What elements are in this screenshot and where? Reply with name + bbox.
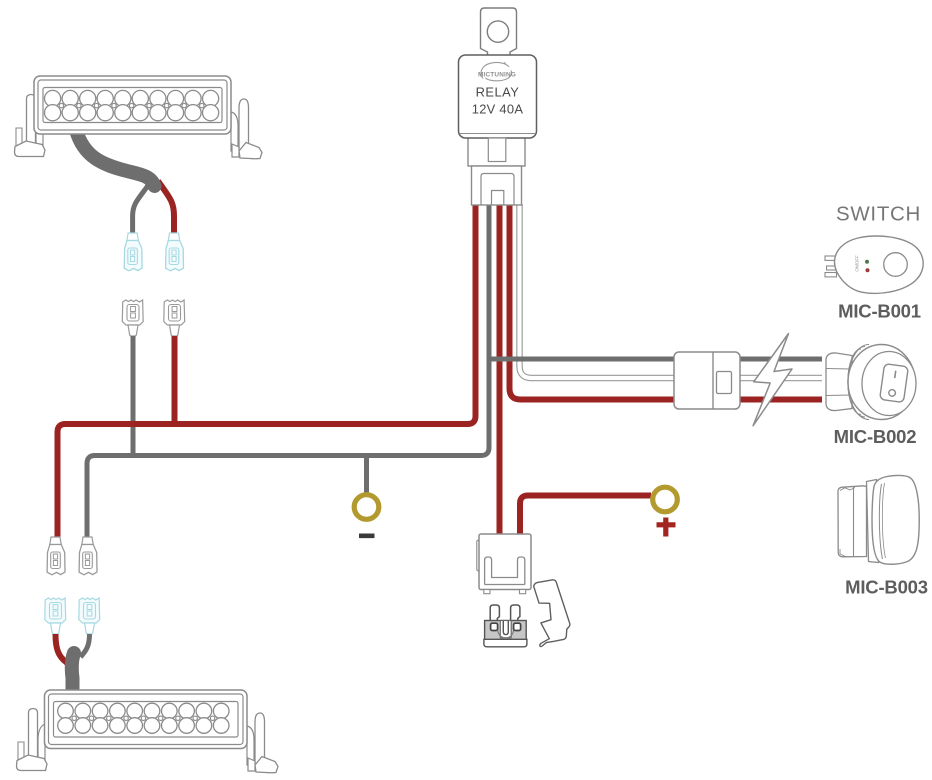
switch MIC-B001 red LED [866,268,870,272]
switch MIC-B003 mounting flange [867,480,879,563]
relay connector lower [472,166,522,205]
LED light bar LB1 left mounting bracket [15,95,46,157]
switch MIC-B002 bezel rings [848,345,869,420]
wire: relay pin 87 red -> power bus to light bars [58,204,476,538]
blade fuse F1 [484,605,527,647]
LED light bar LB2 left mounting bracket [17,709,48,771]
LED light bar LB2 body [45,690,248,749]
wire: gray vertical to ground bus [131,336,136,456]
svg-text:RELAY: RELAY [476,85,520,100]
svg-text:MIC-B002: MIC-B002 [834,426,917,447]
wire: relay white -> switch [520,204,823,378]
LED light bar LB2 right mounting bracket [247,713,278,773]
label: minus sign [359,534,375,539]
switch MIC-B001 button [884,253,908,277]
connector: blue female terminal (LB1 red lead) [166,233,184,271]
connector: male terminal (harness red, top right) [164,300,185,336]
connector: male terminal (harness gray, top left) [122,300,143,336]
relay label RELAY [476,85,520,100]
relay socket inner slot [488,138,506,162]
wire: ground stub to negative ring terminal [364,455,369,496]
label: MIC-B001 [838,301,921,322]
relay label 12V 40A [472,102,524,117]
switch MIC-B003 rear body [838,486,867,557]
label: MIC-B002 [834,426,917,447]
connector: white female terminal (gray feed, bottom right) [79,537,97,575]
switch MIC-B002 front face [862,352,916,416]
wire: top light bar ground lead (gray) [133,181,151,235]
lightning bolt symbol [753,334,792,426]
wire: top light bar power lead (red) [158,181,174,235]
svg-text:SWITCH: SWITCH [836,203,921,226]
wire: red vertical to power bus [172,336,178,424]
switch MIC-B003 rocker face [872,475,919,564]
switch MIC-B001 pins [825,256,837,277]
connector: blue male terminal (LB2 red lead) [45,598,66,634]
wire: LB2 red lead [56,634,74,673]
relay mounting hole [487,21,508,42]
svg-text:MIC-B001: MIC-B001 [838,301,921,322]
switch MIC-B002 rear barrel [826,353,852,411]
ring terminal negative (-) [354,495,379,520]
LED light bar LB1 body [34,76,231,134]
svg-text:ON/OFF: ON/OFF [855,255,860,272]
LED light bar LB1 right mounting bracket [231,99,262,159]
switch MIC-B001 ON/OFF marking [855,255,860,272]
label: MIC-B003 [845,577,928,598]
wire: LB2 gray lead [81,634,90,657]
svg-text:12V 40A: 12V 40A [472,102,524,117]
fuse holder cover [534,580,570,647]
relay socket upper [468,130,525,166]
switch MIC-B002 rocker [880,364,909,403]
svg-text:MICTUNING: MICTUNING [478,72,516,79]
connector: blue male terminal (LB2 gray lead) [79,598,100,634]
relay body U1 [459,55,537,138]
label: SWITCH heading [836,203,921,226]
wire: gray branch to switch (tee at relay gray) [489,357,822,362]
relay mounting tab [481,8,517,56]
relay MICTUNING logo [478,62,516,81]
fuse holder box [477,534,531,590]
ring terminal positive (+) [653,487,678,512]
label: plus sign [657,518,676,537]
fuse holder feet [484,590,526,594]
switch MIC-B002 front rim [848,345,915,420]
connector: blue female terminal (LB1 gray lead) [124,233,142,271]
cable: bottom light bar pigtail [72,653,74,689]
wire: relay pin 30 red -> fuse holder [497,204,503,535]
inline connector block on switch wires [674,352,740,409]
wire: fuse holder -> positive ring terminal (red) [520,496,651,536]
switch MIC-B001 green LED [865,260,869,264]
connector: white female terminal (red feed, bottom left) [47,537,65,575]
svg-text:MIC-B003: MIC-B003 [845,577,928,598]
cable: top light bar pigtail [76,130,155,186]
wire: relay pin 85 gray -> ground bus to light bars [87,204,489,538]
switch MIC-B001 body [834,236,923,293]
wire: relay red -> switch feed [510,204,823,400]
